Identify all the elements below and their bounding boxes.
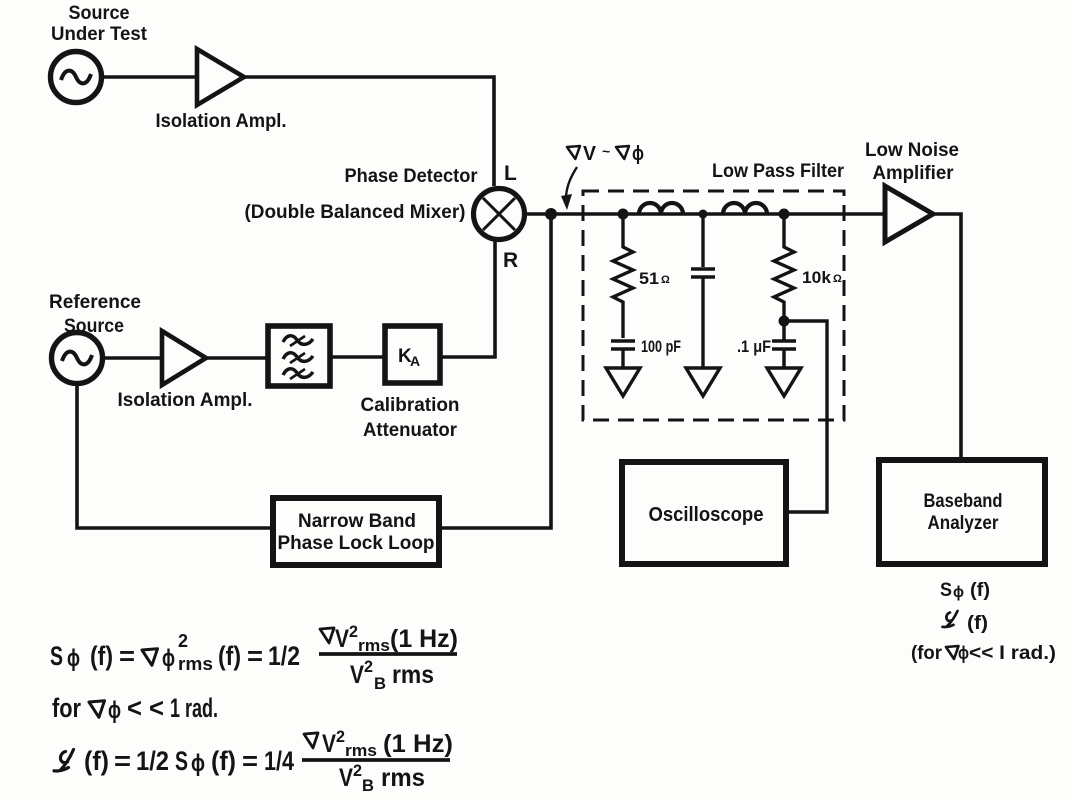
svg-text:S: S [940, 580, 952, 601]
arrow from label to wire [561, 167, 577, 210]
svg-text:< <: < < [127, 693, 164, 723]
svg-text:Oscilloscope: Oscilloscope [649, 504, 764, 526]
capacitor C3 .1 uF [772, 321, 796, 368]
wire ref source down and to PLL [77, 384, 270, 528]
svg-text:Phase Detector: Phase Detector [345, 166, 479, 187]
wire junction to oscilloscope [784, 321, 827, 512]
svg-text:1/4: 1/4 [264, 746, 294, 776]
svg-text:Source: Source [69, 3, 130, 24]
svg-text:2: 2 [353, 761, 362, 780]
oscilloscope box [622, 462, 786, 564]
svg-text:51: 51 [639, 269, 659, 288]
svg-text:S: S [175, 746, 188, 776]
svg-text:(f): (f) [967, 613, 988, 634]
isolation amplifier A1 (triangle) [197, 49, 244, 105]
node junction 2 [699, 210, 708, 219]
label S phi (f) [940, 580, 990, 601]
svg-text:S: S [50, 641, 63, 671]
narrow band phase lock loop box [273, 498, 439, 565]
svg-text:ϕ: ϕ [67, 645, 80, 672]
svg-text:.1 μF: .1 μF [737, 337, 771, 356]
label (for d-phi << 1 rad.) [911, 643, 1056, 664]
amplifier A3 (triangle) [885, 186, 933, 242]
svg-text:Isolation Ampl.: Isolation Ampl. [118, 390, 253, 411]
svg-text:Baseband: Baseband [924, 491, 1003, 512]
ground G2 [686, 368, 720, 396]
svg-text:rms: rms [178, 654, 213, 674]
label Source Under Test [51, 3, 148, 45]
svg-text:2: 2 [336, 727, 345, 746]
svg-text:=: = [242, 746, 258, 776]
svg-text:ϕ: ϕ [953, 584, 964, 601]
svg-text:rms: rms [345, 741, 377, 760]
capacitor C1 100 pF [611, 341, 635, 368]
svg-text:(f): (f) [90, 641, 113, 671]
mixer U1 (circle with X) [474, 189, 525, 240]
svg-text:(for: (for [911, 643, 943, 664]
svg-text:10k: 10k [802, 268, 832, 287]
svg-text:rms: rms [392, 661, 434, 689]
svg-text:=: = [119, 641, 135, 671]
svg-text:1/2: 1/2 [268, 641, 300, 671]
label Calibration Attenuator [361, 395, 460, 441]
label Reference Source [49, 292, 141, 337]
node junction 3 [779, 209, 790, 220]
wire LNA to baseband analyzer [933, 214, 961, 457]
equation 3 fraction [302, 727, 453, 795]
svg-text:(1 Hz): (1 Hz) [390, 625, 458, 653]
svg-text:(f): (f) [211, 746, 236, 776]
svg-text:=: = [247, 641, 263, 671]
wire node down to PLL feedback rail [442, 214, 551, 528]
svg-text:Isolation Ampl.: Isolation Ampl. [156, 111, 287, 132]
node junction R2/C3 [779, 316, 790, 327]
svg-text:(f): (f) [84, 746, 109, 776]
svg-text:Reference: Reference [49, 292, 141, 313]
svg-text:Ω: Ω [661, 274, 670, 286]
svg-text:(1 Hz): (1 Hz) [383, 730, 453, 758]
svg-text:V: V [350, 661, 364, 689]
equation 3: script-L (f) = 1/2 S-phi (f) = 1/4 ... [54, 746, 294, 777]
resistor R1 51 ohm [613, 214, 633, 338]
ground G3 [767, 368, 801, 396]
wire source to isolation amp [104, 75, 196, 79]
wire ref source to isolation amp [104, 356, 161, 360]
equation 1 fraction [319, 622, 458, 693]
svg-text:ϕ: ϕ [191, 750, 205, 777]
inductor L1 [639, 203, 683, 214]
svg-text:for: for [52, 693, 81, 723]
equation 2: for d-phi << 1 rad. [52, 693, 218, 724]
svg-text:ϕ: ϕ [632, 143, 644, 165]
svg-text:2: 2 [178, 631, 188, 651]
svg-text:ϕ: ϕ [958, 643, 969, 663]
svg-text:ϕ: ϕ [162, 645, 175, 672]
label deltaV prop deltaPhi [567, 143, 644, 165]
svg-text:V: V [322, 730, 336, 758]
source (sine generator) circle, Source Under Test [51, 52, 102, 103]
reference source circle [52, 333, 103, 384]
svg-text:2: 2 [364, 657, 373, 676]
node: mixer output junction [545, 208, 557, 220]
svg-text:(f): (f) [970, 580, 990, 601]
svg-text:<< I rad.): << I rad.) [969, 643, 1056, 664]
svg-text:Phase Lock Loop: Phase Lock Loop [278, 533, 435, 554]
svg-text:L: L [504, 162, 517, 185]
svg-text:Low Noise: Low Noise [865, 140, 959, 161]
svg-text:rms: rms [381, 764, 425, 792]
node junction 1 [618, 209, 629, 220]
svg-text:B: B [374, 674, 386, 693]
svg-text:100 pF: 100 pF [641, 337, 681, 356]
svg-text:Calibration: Calibration [361, 395, 460, 416]
wire filter to KA [330, 355, 384, 359]
svg-text:V: V [335, 625, 349, 653]
svg-text:Attenuator: Attenuator [363, 420, 458, 441]
svg-text:~: ~ [602, 143, 610, 159]
wire KA to mixer R port [440, 241, 495, 357]
svg-text:=: = [114, 746, 131, 776]
svg-text:2: 2 [349, 622, 358, 641]
svg-text:Analyzer: Analyzer [928, 513, 1000, 534]
svg-text:(f): (f) [218, 641, 241, 671]
svg-text:Ω: Ω [833, 273, 842, 285]
filter F1 (box with wavy lines) [268, 326, 330, 386]
equation 1: S-phi(f) = d-phi^2 rms (f) = 1/2 ... [50, 631, 300, 674]
ground G1 [606, 368, 640, 396]
svg-text:ϕ: ϕ [108, 697, 121, 724]
wire mixer output to LNA [527, 212, 884, 216]
svg-text:B: B [362, 776, 374, 795]
svg-text:Low Pass Filter: Low Pass Filter [712, 161, 845, 182]
svg-text:V: V [583, 143, 597, 165]
svg-text:(Double Balanced Mixer): (Double Balanced Mixer) [245, 202, 466, 223]
svg-text:1 rad.: 1 rad. [170, 693, 218, 723]
baseband analyzer box [879, 460, 1045, 564]
dashed enclosure [583, 191, 844, 420]
wire amp to filter [206, 356, 267, 360]
calibration attenuator box KA [385, 326, 440, 383]
svg-text:Narrow Band: Narrow Band [298, 511, 416, 532]
svg-text:Under Test: Under Test [51, 24, 148, 45]
capacitor C2 (middle shunt) [691, 214, 715, 368]
resistor R2 10k [774, 214, 794, 321]
svg-text:1/2: 1/2 [136, 746, 169, 776]
svg-text:V: V [339, 764, 353, 792]
wire amp to mixer L port [244, 77, 494, 186]
inductor L2 [723, 203, 767, 214]
label script-L (f) [943, 611, 989, 634]
svg-text:A: A [410, 353, 420, 369]
isolation amplifier A2 (triangle) [162, 331, 206, 385]
label Low Noise Amplifier [865, 140, 959, 184]
svg-text:R: R [503, 249, 518, 272]
svg-text:Amplifier: Amplifier [873, 163, 955, 184]
